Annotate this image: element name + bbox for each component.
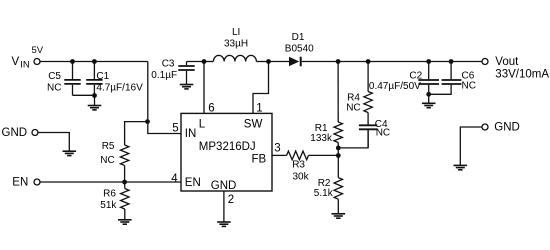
IC U1 MP3216DJ box: [181, 113, 272, 191]
node C5/C1 bottom junction: [92, 93, 97, 98]
wire R1 to C4 node: [337, 143, 339, 156]
svg-text:R5: R5: [102, 141, 115, 152]
resistor R6: [121, 189, 129, 210]
terminal GND right: [482, 124, 488, 130]
svg-text:LI: LI: [232, 27, 240, 38]
node inductor left: [202, 59, 207, 64]
svg-text:Vout: Vout: [495, 56, 519, 68]
svg-text:4: 4: [171, 173, 178, 185]
resistor R1: [334, 122, 342, 143]
resistor R4: [364, 92, 372, 113]
wire junction to R5 top: [125, 122, 148, 145]
label VIN: [12, 56, 30, 70]
wire SW jog: [253, 62, 269, 114]
svg-text:IN: IN: [185, 128, 197, 140]
node R4 rail junction: [366, 59, 371, 64]
wire EN to pin 4: [40, 181, 181, 183]
wire output rail: [302, 61, 482, 63]
wire VIN drop to IN: [147, 62, 149, 122]
wire pin 2: [223, 191, 225, 222]
svg-text:EN: EN: [12, 177, 28, 189]
svg-text:MP3216DJ: MP3216DJ: [199, 141, 256, 153]
inductor LI: [213, 55, 256, 61]
capacitor C6: [442, 62, 462, 85]
wire C3 to inductor node: [187, 61, 205, 63]
svg-text:D1: D1: [292, 32, 305, 43]
svg-text:2: 2: [228, 194, 234, 206]
node C2 rail junction: [426, 59, 431, 64]
wire FB to R3: [272, 154, 287, 156]
wire C2 to ground: [428, 94, 430, 103]
wire R2 to ground: [337, 199, 339, 213]
wire GND terminal to ground: [38, 133, 69, 151]
svg-text:R3: R3: [292, 160, 305, 171]
resistor R3: [287, 151, 309, 160]
capacitor C3: [178, 62, 194, 85]
svg-text:C3: C3: [162, 58, 175, 69]
svg-text:5: 5: [172, 122, 178, 134]
ground (GND left): [63, 151, 77, 155]
ground (C2): [422, 103, 436, 107]
ground (C1): [88, 106, 102, 110]
svg-text:4.7µF/16V: 4.7µF/16V: [96, 82, 143, 93]
svg-text:V: V: [12, 56, 20, 68]
svg-text:NC: NC: [47, 82, 61, 93]
node VIN/R5/IN junction: [145, 119, 150, 124]
node C5 rail junction: [70, 59, 75, 64]
svg-text:NC: NC: [100, 155, 114, 166]
wire FB node to R2: [337, 156, 339, 178]
svg-text:C2: C2: [409, 71, 422, 82]
wire C1 to ground: [94, 96, 96, 106]
svg-text:C1: C1: [96, 71, 109, 82]
capacitor C4: [359, 113, 377, 148]
svg-text:NC: NC: [346, 102, 360, 113]
wire R5 bottom to EN node: [124, 166, 126, 183]
svg-text:L: L: [199, 118, 206, 130]
wire node to pin 6: [203, 62, 205, 114]
svg-text:R1: R1: [315, 123, 328, 134]
ground (R6): [118, 220, 132, 224]
terminal VIN: [34, 59, 40, 65]
svg-text:C5: C5: [48, 71, 61, 82]
wire inductor right lead: [256, 61, 268, 63]
svg-text:SW: SW: [244, 118, 263, 130]
svg-text:5V: 5V: [32, 45, 44, 56]
svg-text:R6: R6: [103, 189, 116, 200]
node C1 rail junction: [92, 59, 97, 64]
svg-text:1: 1: [256, 102, 262, 114]
svg-text:IN: IN: [20, 60, 30, 71]
svg-text:33µH: 33µH: [224, 39, 248, 50]
svg-text:30k: 30k: [293, 172, 310, 183]
wire rail to R1: [337, 62, 339, 123]
node R1/C4 junction: [336, 146, 341, 151]
svg-text:EN: EN: [185, 177, 201, 189]
wire node to diode: [269, 61, 290, 63]
svg-text:5.1k: 5.1k: [314, 188, 334, 199]
wire R3 to FB node: [309, 154, 339, 156]
node EN/R5/R6 junction: [122, 180, 127, 185]
node inductor right: [266, 59, 271, 64]
terminal GND left: [32, 130, 38, 136]
capacitor C2: [418, 62, 439, 95]
node C6 rail junction: [449, 59, 454, 64]
svg-text:0.1µF: 0.1µF: [151, 70, 177, 81]
ground (R2): [332, 214, 346, 218]
ground (pin 2): [217, 222, 231, 226]
capacitor C5: [64, 62, 80, 96]
node R1 rail junction: [336, 59, 341, 64]
node FB junction: [336, 153, 341, 158]
wire GND right to ground: [460, 127, 482, 165]
wire junction to pin 5: [148, 122, 181, 134]
resistor R5: [120, 145, 128, 166]
terminal Vout: [482, 59, 488, 65]
svg-text:51k: 51k: [100, 200, 117, 211]
svg-text:33V/10mA: 33V/10mA: [495, 68, 549, 80]
wire R6 to ground: [124, 209, 126, 219]
svg-text:FB: FB: [252, 153, 267, 165]
resistor R2: [334, 178, 342, 200]
svg-text:GND: GND: [494, 122, 520, 134]
wire VIN rail: [40, 61, 148, 63]
svg-text:0.47µF/50V: 0.47µF/50V: [369, 81, 421, 92]
svg-text:GND: GND: [211, 180, 237, 192]
wire inductor left lead: [204, 61, 213, 63]
svg-text:133k: 133k: [310, 133, 333, 144]
ground (C3): [180, 85, 194, 89]
svg-text:B0540: B0540: [285, 44, 314, 55]
ground (GND right): [454, 165, 468, 169]
wire C4 bottom link: [338, 130, 368, 148]
wire C5 to C1 bottom: [73, 94, 95, 96]
node C2/C6 bottom junction: [426, 92, 431, 97]
capacitor C1: [86, 62, 102, 96]
diode D1: [289, 57, 301, 67]
svg-text:NC: NC: [376, 127, 390, 138]
svg-text:GND: GND: [2, 127, 28, 139]
wire EN node to R6: [124, 182, 126, 189]
svg-text:6: 6: [208, 102, 214, 114]
wire rail to R4: [367, 62, 369, 92]
svg-text:NC: NC: [462, 80, 476, 91]
svg-text:3: 3: [274, 143, 280, 155]
wire C2 to C6 bottom: [429, 85, 451, 94]
terminal EN: [34, 179, 40, 185]
